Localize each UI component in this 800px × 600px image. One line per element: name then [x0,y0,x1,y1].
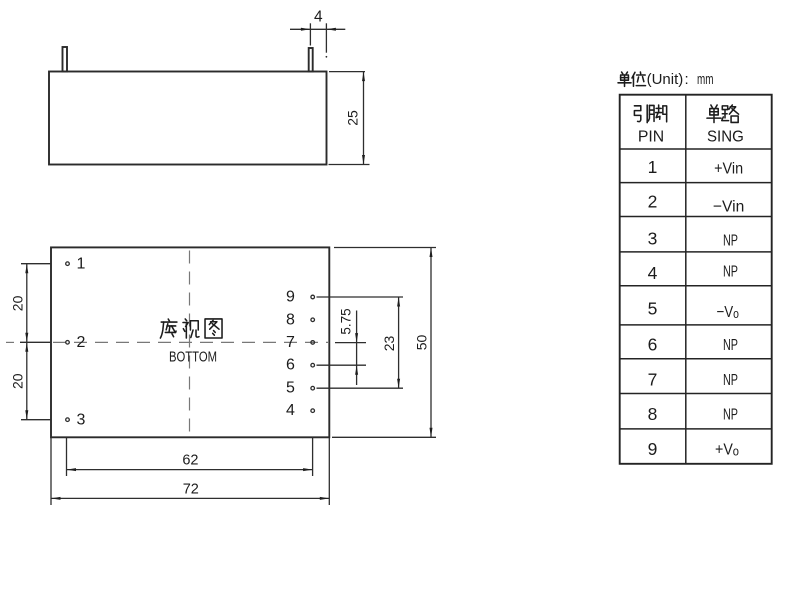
dimension 4 (pin offset) [290,9,345,58]
side view right pin [309,48,313,72]
pin 8 [311,318,315,322]
pin 4 [311,409,315,413]
svg-text:9: 9 [286,289,295,306]
header char 引 [634,105,647,123]
svg-text:4: 4 [648,263,658,283]
svg-text:−Vin: −Vin [713,199,745,216]
svg-text:3: 3 [77,412,86,429]
svg-text:50: 50 [414,335,430,351]
svg-text::: : [685,71,689,88]
svg-text:6: 6 [286,357,295,374]
header char 单 [707,105,721,123]
svg-text:NP: NP [723,264,738,281]
svg-text:4: 4 [286,402,295,419]
svg-text:+Vo: +Vo [715,442,739,459]
svg-text:72: 72 [183,481,199,497]
svg-text:9: 9 [648,439,658,459]
svg-text:23: 23 [381,336,397,352]
side view module body [49,72,327,165]
svg-text:20: 20 [10,373,26,389]
pin 5 extension line [317,387,404,389]
svg-text:2: 2 [648,192,658,212]
dimension 25 (side view height) [329,72,370,165]
title char 位 [632,72,646,86]
svg-text:NP: NP [723,372,738,389]
bottom view module body [51,247,329,437]
horizontal centerline [53,341,328,343]
pin 9 extension line [317,296,404,298]
svg-text:20: 20 [10,295,26,311]
svg-text:NP: NP [723,406,738,423]
svg-text:NP: NP [723,337,738,354]
svg-text:3: 3 [648,229,658,249]
pin 7 extension line [335,342,366,344]
svg-text:4: 4 [314,9,323,26]
svg-text:7: 7 [286,334,295,351]
svg-text:BOTTOM: BOTTOM [169,349,217,366]
vertical centerline [189,251,191,435]
dimension 50 [332,248,436,438]
pin 3 [66,418,70,422]
svg-text:7: 7 [648,370,658,390]
table signal values [713,160,745,458]
table column divider [685,95,687,464]
pin 7 [311,341,315,345]
table outer border [620,95,772,464]
pin 9 [311,295,315,299]
svg-text:62: 62 [182,452,198,468]
dimension 72 [51,437,329,505]
svg-text:5.75: 5.75 [339,308,354,334]
pin 2 [66,341,70,345]
centerline tail left [6,341,14,343]
pin 1 [66,262,70,266]
svg-text:(Unit): (Unit) [647,71,684,88]
svg-text:SING: SING [707,128,744,145]
header char 脚 [648,105,666,122]
pin 5 [311,386,315,390]
dimension 23 [381,297,400,388]
view title char 底 [160,319,177,338]
svg-text:mm: mm [697,71,714,88]
svg-text:+Vin: +Vin [714,160,743,177]
svg-text:1: 1 [77,256,86,273]
view title char 视 [183,319,199,338]
view title char 图 [205,319,222,338]
svg-text:5: 5 [648,299,658,319]
side view left pin [63,47,68,72]
dimension 5.75 [339,308,359,385]
pin 6 extension line [317,364,367,366]
svg-text:2: 2 [77,334,86,351]
title char 单 [618,72,631,86]
table row lines [620,183,772,429]
pin 6 [311,363,315,367]
header char 路 [722,105,739,122]
dimension 20 upper [10,264,52,420]
svg-text:25: 25 [345,110,361,126]
svg-text:5: 5 [286,380,295,397]
svg-text:8: 8 [286,311,295,328]
dimension 62 [67,437,313,476]
table pin numbers [648,157,658,459]
svg-text:NP: NP [723,233,738,250]
svg-text:6: 6 [648,335,658,355]
svg-text:−Vo: −Vo [716,304,739,321]
table header divider [620,148,772,150]
svg-text:PIN: PIN [638,128,664,145]
svg-text:1: 1 [648,157,658,177]
svg-text:8: 8 [648,404,658,424]
